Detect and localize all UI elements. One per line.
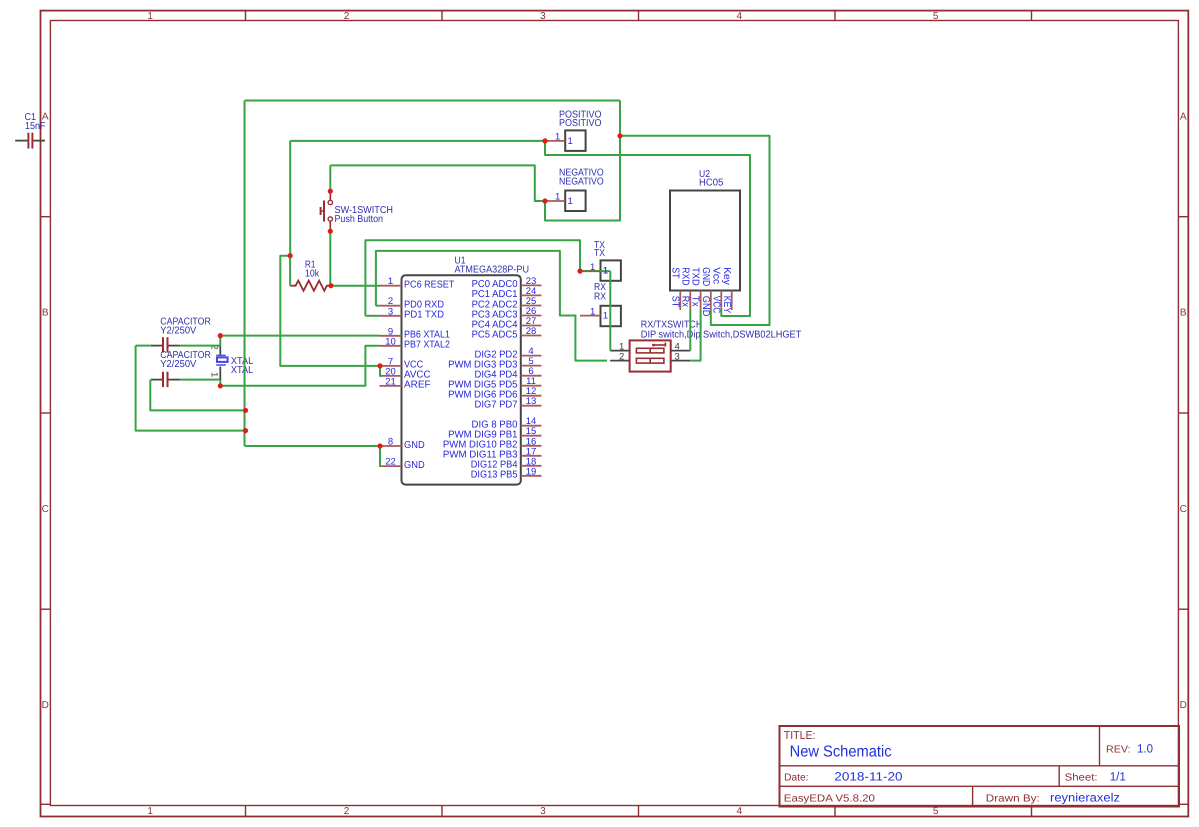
svg-text:5: 5 [933, 11, 939, 22]
wire C2 left stub [136, 345, 151, 347]
svg-text:RX: RX [594, 292, 606, 303]
U1 pin 5 PWM DIG3 PD3 [448, 356, 541, 370]
SW1 top pin [329, 191, 331, 200]
U1 pin 24 PC1 ADC1 [472, 286, 542, 300]
RX body [601, 306, 621, 326]
junction U1 GND pin node [377, 443, 382, 448]
svg-text:TXD: TXD [690, 267, 701, 285]
title block [780, 726, 1180, 807]
connector RX [580, 282, 621, 326]
svg-text:reynieraxelz: reynieraxelz [1050, 790, 1120, 804]
capacitor C3 Y2/250V [151, 350, 211, 387]
svg-text:Y2/250V: Y2/250V [160, 326, 196, 337]
DIP switch element 1 [636, 348, 664, 353]
svg-text:3: 3 [540, 11, 546, 22]
wire SW1 top pin [329, 165, 331, 191]
connector POSITIVO [545, 109, 601, 151]
svg-text:1: 1 [209, 372, 220, 377]
svg-text:POSITIVO: POSITIVO [559, 118, 602, 129]
U1 pin 28 PC5 ADC5 [472, 326, 542, 340]
svg-text:1: 1 [568, 136, 573, 147]
junction GND branch node [617, 133, 622, 138]
svg-text:1/1: 1/1 [1110, 769, 1127, 783]
wire C2 right to XTAL pin 2 [180, 345, 220, 347]
svg-text:19: 19 [526, 466, 537, 477]
wire XTAL bottom node to U1 XTAL2 pin 10 [220, 346, 379, 386]
svg-text:A: A [1180, 111, 1187, 122]
U1 pin 1 PC6 RESET [380, 276, 455, 290]
U1 pin 27 PC4 ADC4 [472, 316, 542, 330]
svg-text:1: 1 [603, 266, 608, 277]
svg-text:1: 1 [555, 131, 560, 142]
svg-text:Drawn By:: Drawn By: [986, 794, 1040, 805]
wire VCC net POSITIVO to U2 VCC [545, 141, 750, 316]
svg-text:21: 21 [385, 376, 396, 387]
svg-text:10k: 10k [305, 269, 320, 280]
C3 pins [151, 379, 180, 381]
capacitor C2 Y2/250V [151, 317, 211, 353]
U1 pin 26 PC3 ADC3 [472, 306, 542, 320]
svg-text:Sheet:: Sheet: [1065, 773, 1098, 784]
svg-text:New Schematic: New Schematic [790, 743, 892, 760]
POSITIVO body [565, 130, 585, 151]
R1 zigzag body [290, 281, 331, 291]
SW1 top contact [328, 200, 332, 204]
U1 pin 20 AVCC [380, 366, 431, 380]
junction R1 right node [328, 283, 333, 288]
U1 pin 7 VCC [380, 356, 424, 370]
wire U1 RXD to DIP pin 2 [376, 251, 607, 361]
wire GND net branch to U2 GND [620, 136, 770, 325]
svg-text:Y2/250V: Y2/250V [160, 359, 196, 370]
U1 pin 9 PB6 XTAL1 [380, 326, 451, 340]
C3 plates [163, 372, 168, 387]
svg-text:GND: GND [404, 460, 425, 471]
U1 pin 6 DIG4 PD4 [475, 366, 542, 380]
wire U1 VCC to AVCC jog [380, 366, 382, 376]
svg-text:1: 1 [388, 276, 393, 287]
svg-text:PB7 XTAL2: PB7 XTAL2 [404, 340, 450, 351]
svg-text:C: C [1180, 504, 1187, 515]
svg-text:DIG7 PD7: DIG7 PD7 [475, 400, 518, 411]
wire SW1 to NEGATIVO node [330, 165, 545, 201]
DIP pin 2 [610, 352, 629, 363]
svg-text:1: 1 [147, 806, 153, 817]
wire GND net to U1 pin 8 [245, 445, 380, 447]
wire SW1 bottom to R1 right [329, 231, 331, 286]
svg-text:XTAL: XTAL [231, 365, 254, 376]
wire R1 node to U1 VCC pin 7 [280, 256, 379, 366]
XTAL pin 1 [219, 367, 221, 380]
svg-text:1: 1 [555, 192, 560, 203]
C1 pins [15, 140, 45, 142]
svg-text:DIG13 PB5: DIG13 PB5 [471, 470, 518, 481]
svg-text:1: 1 [603, 311, 608, 322]
TX pin 1 [581, 270, 601, 272]
POSITIVO pin 1 [545, 140, 565, 142]
switch SW-1SWITCH push button [321, 191, 393, 231]
svg-text:D: D [42, 700, 49, 711]
U2 pin KEY [721, 267, 732, 313]
junction U1 VCC pin node [377, 363, 382, 368]
DIP switch RX/TXSWITCH [610, 320, 801, 372]
svg-text:PC6 RESET: PC6 RESET [404, 280, 454, 291]
svg-text:1: 1 [147, 11, 153, 22]
TX body [601, 260, 621, 280]
U1 pin 2 PD0 RXD [380, 296, 445, 310]
U2 pin GND [700, 267, 711, 316]
svg-text:Tx: Tx [690, 296, 701, 307]
U1 pin 4 DIG2 PD2 [475, 346, 542, 360]
svg-text:4: 4 [737, 806, 743, 817]
U1 pin 14 DIG 8 PB0 [472, 416, 542, 430]
svg-text:28: 28 [526, 326, 537, 337]
svg-text:2: 2 [344, 11, 350, 22]
crystal XTAL [209, 344, 254, 380]
wire U1 TXD to TX connector [365, 240, 580, 316]
svg-text:DIP switch,Dip Switch,DSWB02LH: DIP switch,Dip Switch,DSWB02LHGET [641, 329, 802, 340]
wire VCC net POSITIVO to R1 node [290, 140, 545, 142]
svg-text:15nF: 15nF [25, 121, 46, 132]
DIP switch element 2 [636, 358, 664, 363]
U2 pin Rx [679, 267, 690, 310]
resistor R1 [290, 259, 331, 291]
wire TX node into box [601, 270, 611, 272]
U1 pin 10 PB7 XTAL2 [380, 336, 451, 350]
junction node NEGATIVO pin [542, 198, 547, 203]
junction XTAL top node [218, 333, 223, 338]
svg-text:TITLE:: TITLE: [784, 730, 816, 742]
svg-text:EasyEDA V5.8.20: EasyEDA V5.8.20 [784, 794, 875, 805]
DIP pin 1 [610, 342, 629, 353]
DIP body [630, 340, 671, 371]
module U2 HC05 [669, 169, 740, 317]
U1 pin 13 DIG7 PD7 [475, 396, 542, 410]
U1 pin 21 AREF [380, 376, 431, 390]
svg-text:AREF: AREF [404, 380, 431, 391]
svg-text:Key: Key [721, 267, 732, 285]
svg-text:GND: GND [700, 267, 711, 286]
U1 pin 18 DIG12 PB4 [471, 456, 542, 470]
wire R1 node to R1 left lead [289, 256, 291, 286]
svg-text:B: B [42, 308, 49, 319]
svg-text:PD1 TXD: PD1 TXD [404, 310, 444, 321]
wire RXD pin stub [376, 305, 380, 307]
svg-text:2: 2 [344, 806, 350, 817]
wire TXD pin stub [365, 315, 379, 317]
svg-text:HC05: HC05 [699, 177, 724, 188]
svg-text:3: 3 [540, 806, 546, 817]
svg-text:13: 13 [526, 396, 537, 407]
C2 plates [163, 337, 168, 352]
svg-text:ATMEGA328P-PU: ATMEGA328P-PU [455, 265, 530, 276]
svg-text:VCC: VCC [710, 296, 721, 314]
svg-text:5: 5 [933, 806, 939, 817]
wire U1 pin 8 to pin 22 jog [380, 446, 381, 466]
svg-text:4: 4 [737, 11, 743, 22]
svg-text:KEY: KEY [721, 296, 732, 314]
U2 pin VCC [710, 267, 721, 313]
svg-text:ST: ST [669, 267, 680, 278]
DIP pin 4 [671, 342, 691, 353]
svg-text:C: C [42, 504, 49, 515]
svg-text:Date:: Date: [784, 772, 808, 783]
junction XTAL bottom node [218, 383, 223, 388]
U1 pin 16 PWM DIG10 PB2 [443, 436, 542, 450]
U1 pin 12 PWM DIG6 PD6 [448, 386, 541, 400]
svg-text:RXD: RXD [679, 267, 690, 285]
U1 pin 22 GND [380, 457, 425, 471]
svg-text:3: 3 [388, 306, 393, 317]
svg-text:PC5 ADC5: PC5 ADC5 [472, 329, 518, 340]
svg-text:TX: TX [594, 248, 605, 259]
U1 body [402, 275, 521, 484]
wire C3 right to XTAL pin 1 [180, 379, 220, 381]
U1 pin 11 PWM DIG5 PD5 [448, 376, 541, 390]
junction C3 loop node [243, 408, 248, 413]
wire XTAL top node to U1 XTAL1 pin 9 [220, 335, 379, 337]
wire XTAL pin 1 to bottom node [219, 380, 221, 386]
XTAL crystal body [216, 355, 227, 365]
SW1 bottom pin [329, 221, 331, 231]
NEGATIVO body [565, 191, 585, 212]
junction SW1 bottom node [328, 229, 333, 234]
connector TX [581, 240, 621, 281]
U2 pin ST [669, 267, 680, 310]
svg-text:3: 3 [675, 352, 680, 363]
U1 pin 25 PC2 ADC2 [472, 296, 542, 310]
svg-text:Rx: Rx [679, 296, 690, 307]
U1 pin 17 PWM DIG11 PB3 [443, 446, 542, 460]
svg-text:REV:: REV: [1106, 745, 1131, 756]
C1 plates [28, 133, 32, 149]
RX pin 1 [580, 315, 601, 317]
SW1 bottom contact [328, 217, 332, 221]
junction node POSITIVO pin [542, 138, 547, 143]
svg-text:ST: ST [669, 296, 680, 307]
svg-text:Push Button: Push Button [335, 214, 384, 225]
U1 pin 19 DIG13 PB5 [471, 466, 542, 480]
wire VCC net down to R1 node [289, 141, 291, 256]
junction C2 loop node [243, 428, 248, 433]
svg-text:GND: GND [404, 440, 425, 451]
svg-text:B: B [1180, 308, 1187, 319]
wire U2 Rx to DIP pin 4 [689, 310, 691, 351]
U2 pin Tx [690, 267, 701, 310]
svg-text:8: 8 [388, 437, 393, 448]
connector NEGATIVO [545, 168, 604, 212]
wire C3 left loop to node [150, 380, 245, 411]
capacitor C1 [15, 112, 45, 149]
NEGATIVO pin 1 [545, 200, 565, 202]
svg-text:2: 2 [619, 352, 624, 363]
DIP actuator arrow [653, 344, 665, 346]
svg-text:22: 22 [385, 457, 396, 468]
svg-text:Vcc: Vcc [710, 267, 721, 284]
svg-text:2018-11-20: 2018-11-20 [834, 769, 903, 783]
junction SW1 top node [328, 189, 333, 194]
U1 pin 23 PC0 ADC0 [472, 276, 542, 290]
wire XTAL top node to pin 2 [219, 336, 221, 346]
wire GND net left vertical [244, 101, 246, 447]
svg-text:1: 1 [568, 196, 573, 207]
wire GND net top segment [245, 100, 621, 102]
XTAL pin 2 [219, 346, 221, 356]
IC U1 ATMEGA328P-PU [380, 255, 542, 484]
U1 pin 8 GND [380, 437, 425, 451]
wire GND net right vertical to NEGATIVO [545, 101, 620, 221]
svg-text:1.0: 1.0 [1137, 742, 1153, 756]
wire TX pin overlap [581, 270, 601, 272]
C2 pins [151, 345, 180, 347]
svg-text:D: D [1180, 700, 1187, 711]
wire TX to DIP pin 1 [609, 271, 611, 351]
wire C2 left loop to node [136, 346, 246, 431]
svg-text:NEGATIVO: NEGATIVO [559, 177, 604, 188]
SW1 plunger [323, 201, 325, 222]
wire U2 Tx to DIP pin 3 [690, 310, 700, 361]
DIP pin 3 [671, 352, 691, 363]
U2 body [670, 191, 740, 291]
svg-text:10: 10 [385, 336, 396, 347]
svg-text:1: 1 [590, 306, 595, 317]
junction R1 upper node [288, 253, 293, 258]
junction TX pin node [577, 269, 582, 274]
U1 pin 3 PD1 TXD [380, 306, 445, 320]
wire R1 right to U1 RESET pin 1 [331, 285, 380, 287]
U1 pin 15 PWM DIG9 PB1 [448, 426, 541, 440]
